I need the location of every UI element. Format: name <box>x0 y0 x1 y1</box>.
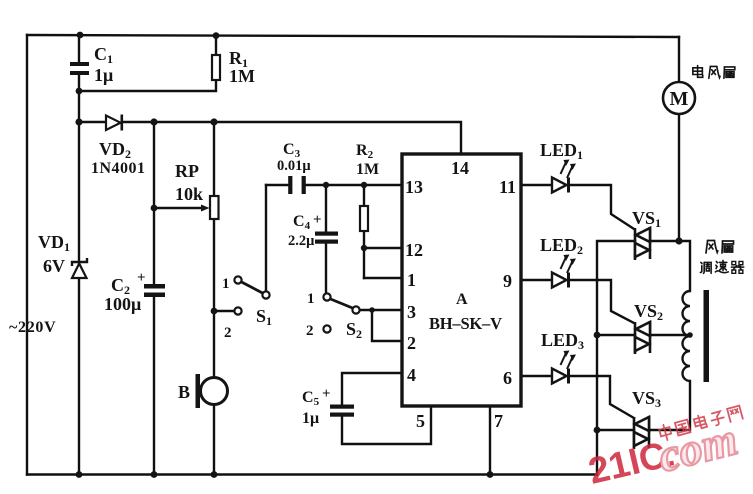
node: RP top junction <box>210 118 217 125</box>
wire: pin 7 to bottom rail <box>489 407 491 475</box>
wire: pin 12 stub <box>364 247 402 249</box>
wire: top supply rail <box>27 35 679 37</box>
wire: S1 contact-2 lead <box>214 310 234 312</box>
resistor R2 <box>360 206 368 231</box>
node: C2 top junction <box>150 118 157 125</box>
node: coil tap junction <box>687 332 693 338</box>
svg-text:6V: 6V <box>43 256 65 276</box>
wire: pin 13 rail with C3 <box>266 184 402 186</box>
svg-text:RP: RP <box>175 161 199 181</box>
wire: pin 9 to LED2 <box>521 279 552 281</box>
node: R1 top junction <box>213 32 220 39</box>
svg-text:7: 7 <box>494 411 503 431</box>
svg-text:1: 1 <box>307 291 315 307</box>
wire: triac MT1 bus <box>597 241 635 475</box>
op-amp U1 BH-SK-V IC body <box>402 154 521 406</box>
svg-text:14: 14 <box>451 158 469 178</box>
node: bus VS2 junction <box>594 332 601 339</box>
wire: VS2 MT2 to coil tap <box>650 334 690 336</box>
svg-text:13: 13 <box>405 177 423 197</box>
wire: C4 vertical leads <box>325 185 327 293</box>
node: S1 contact 2 junction <box>211 308 218 315</box>
node: C1 bottom junction <box>76 88 83 95</box>
capacitor C2 <box>144 284 165 297</box>
wire: pin 3 to pin 2 link <box>372 310 402 341</box>
svg-text:2.2μ: 2.2μ <box>288 233 315 249</box>
LED LED3 <box>552 351 576 384</box>
wire: VD2 rail to pin 14 <box>79 122 461 154</box>
inductor: fan speed regulator coil <box>683 291 690 381</box>
inductor core bar <box>704 290 710 382</box>
switch S1 <box>234 276 269 314</box>
svg-text:+: + <box>137 270 146 286</box>
LED LED1 <box>552 160 576 193</box>
svg-text:B: B <box>178 382 190 402</box>
node: wiper junction <box>151 205 158 212</box>
label: fan speed regulator (fengshan tiaosuqi) <box>700 241 743 274</box>
svg-text:LED3: LED3 <box>541 330 584 352</box>
zener diode VD1 <box>72 258 87 278</box>
node: bottom rail pin7 junction <box>487 471 494 478</box>
svg-text:10k: 10k <box>175 184 203 204</box>
node: C1 top junction <box>77 32 84 39</box>
wire: bottom return rail <box>27 473 597 475</box>
svg-text:100μ: 100μ <box>104 294 141 314</box>
node: bus VS3 junction <box>594 427 601 434</box>
svg-text:3: 3 <box>407 302 416 322</box>
wire: LED3 output and VS3 gate drop <box>570 376 634 418</box>
svg-text:5: 5 <box>416 411 425 431</box>
wire: C1 bottom to R1 bottom <box>79 80 216 91</box>
triac VS1 <box>635 227 650 260</box>
motor M electric fan <box>663 82 695 114</box>
svg-text:6: 6 <box>503 368 512 388</box>
wire: C1/VD1 vertical net <box>78 35 80 475</box>
node: bottom rail VD1 junction <box>76 471 83 478</box>
svg-text:LED1: LED1 <box>540 140 583 162</box>
wire: pin 6 to LED3 <box>521 375 552 377</box>
svg-text:2: 2 <box>224 325 232 341</box>
node: S2 common junction <box>369 307 375 313</box>
node: R2 bottom / pin12 junction <box>361 245 367 251</box>
wire: pin 11 to LED1 <box>521 184 552 186</box>
svg-text:1M: 1M <box>356 161 379 178</box>
diode VD2 <box>106 115 122 131</box>
capacitor C4 <box>315 232 338 244</box>
wire: LED1 output and VS1 gate drop <box>570 185 634 229</box>
LED LED2 <box>552 255 576 288</box>
wire: pin 1 stub <box>364 277 402 279</box>
node: motor / VS1 MT2 junction <box>675 237 682 244</box>
wire: RP / S1-2 / B vertical net <box>213 122 215 475</box>
svg-text:1M: 1M <box>229 66 255 86</box>
potentiometer RP <box>201 196 219 219</box>
capacitor C1 <box>70 62 89 75</box>
wire: pin 4 to C5 <box>342 373 402 404</box>
wire: C2 vertical net <box>153 122 155 475</box>
wire: left mains vertical <box>26 35 28 475</box>
wire: VS1 MT2 to coil top <box>650 241 690 291</box>
wire: RP wiper lead <box>154 207 202 209</box>
wire: VS3 MT2 to coil bottom <box>650 381 690 430</box>
svg-text:BH–SK–V: BH–SK–V <box>429 314 502 333</box>
triac VS3 <box>634 416 649 449</box>
svg-text:+: + <box>322 386 331 402</box>
svg-text:12: 12 <box>405 240 423 260</box>
svg-text:4: 4 <box>407 365 416 385</box>
node: C4 top junction <box>323 182 329 188</box>
capacitor C5 <box>330 405 354 417</box>
node: R2 top junction <box>361 182 367 188</box>
svg-text:0.01μ: 0.01μ <box>277 158 311 174</box>
wire: S2 common to pin 3 <box>360 309 402 311</box>
label C1 value <box>9 44 689 431</box>
wire: LED2 output and VS2 gate drop <box>570 280 634 323</box>
wire: S1 common riser <box>265 185 267 291</box>
wire: C5 bottom to pin 5 <box>342 407 431 444</box>
watermark: China electronics net (zhongguo dianziwang) <box>658 405 743 442</box>
capacitor C3 <box>288 176 306 194</box>
switch S2 <box>323 293 359 332</box>
node: VD2 anode junction <box>75 118 82 125</box>
svg-text:1N4001: 1N4001 <box>91 160 146 177</box>
microphone B <box>196 374 228 408</box>
svg-text:2: 2 <box>407 333 416 353</box>
wire: R2 leads <box>363 185 365 278</box>
wire: VS2 MT1 stub <box>597 334 635 336</box>
svg-text:2: 2 <box>306 323 314 339</box>
wire: VS3 MT1 stub <box>597 429 634 431</box>
svg-text:M: M <box>670 88 689 110</box>
label: electric fan (dianfengshan) <box>693 66 735 79</box>
svg-text:LED2: LED2 <box>540 235 583 257</box>
svg-text:11: 11 <box>499 177 516 197</box>
svg-text:1: 1 <box>222 276 230 292</box>
svg-text:+: + <box>313 212 322 228</box>
svg-text:~220V: ~220V <box>9 319 56 336</box>
triac VS2 <box>635 321 650 354</box>
node: bottom rail B junction <box>211 471 218 478</box>
resistor R1 <box>212 55 220 80</box>
wire: motor branch vertical <box>678 37 680 241</box>
watermark 21IC.com <box>585 413 743 492</box>
svg-text:9: 9 <box>503 271 512 291</box>
svg-text:1μ: 1μ <box>94 65 113 85</box>
svg-text:A: A <box>456 291 468 308</box>
svg-text:1: 1 <box>407 270 416 290</box>
wire: R1 top lead <box>215 35 217 55</box>
svg-text:1μ: 1μ <box>302 410 319 427</box>
node: bottom rail C2 junction <box>151 471 158 478</box>
